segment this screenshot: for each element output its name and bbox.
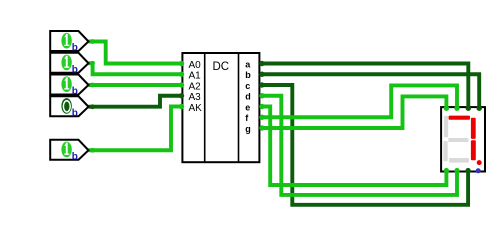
wire b output (dark) [260,74,480,107]
wire pin4 to A3 (dark) [89,96,184,107]
seven segment display U1 [441,107,485,171]
segment e (off) [443,141,447,161]
decoder DC body [182,53,259,162]
node display bottom 1 (e) [444,168,449,173]
node A2 [179,82,184,87]
wire pin3 to A2 [89,83,184,87]
svg-text:AK: AK [189,103,203,114]
svg-text:A1: A1 [189,71,202,82]
wire pin2 to A1 [89,63,184,74]
node A3 [179,93,184,98]
node e [259,104,264,109]
svg-text:b: b [72,151,78,162]
input pin 2 [50,53,88,76]
node A0 [179,61,184,66]
svg-text:g: g [245,124,251,134]
svg-text:DC: DC [213,61,230,73]
node display top 4 (b) [477,106,482,111]
node d [259,93,264,98]
decimal point (lit) [477,160,482,165]
node g [259,125,264,130]
node pin3 tip [90,83,95,88]
input pin 3 [50,75,88,98]
input pin 4 (value 0) [50,96,88,119]
node display bottom 3 (c) [465,168,470,173]
node a [259,61,264,66]
segment a (lit) [449,116,470,120]
segment c (lit) [471,140,476,160]
wire e output [260,107,447,186]
node pin2 tip [90,61,95,66]
node b [259,72,264,77]
svg-text:b: b [72,108,78,119]
node A1 [179,72,184,77]
svg-text:A3: A3 [189,92,202,103]
node display bottom 2 (d) [454,168,459,173]
segment d (off) [449,158,469,163]
input pin 5 [50,140,88,163]
wire pin5 to AK [89,107,184,151]
wire pin1 to A0 [89,42,184,64]
wire c output (dark) [260,85,469,205]
node pin1 tip [90,39,95,44]
node display dp (unconnected, blue) [476,168,481,173]
svg-text:A2: A2 [189,81,202,92]
svg-text:e: e [245,102,250,112]
wire f output [260,85,458,117]
wire a output (dark) [260,64,469,108]
wire d output [260,96,458,195]
node c [259,82,264,87]
node pin4 tip [90,104,95,109]
svg-text:c: c [245,81,250,91]
wire g output [260,96,447,128]
input pin 1 [50,31,88,54]
node display top 2 (f) [454,106,459,111]
node display top 3 (a) [466,106,471,111]
svg-text:A0: A0 [189,60,202,71]
node pin5 tip [90,148,95,153]
segment f (off) [444,116,448,138]
node AK [179,104,184,109]
svg-text:b: b [245,70,251,80]
node f [259,115,264,120]
node display top 1 (g) [444,106,449,111]
segment g (off) [448,138,468,142]
segment b (lit) [471,118,476,139]
svg-text:d: d [245,92,251,102]
